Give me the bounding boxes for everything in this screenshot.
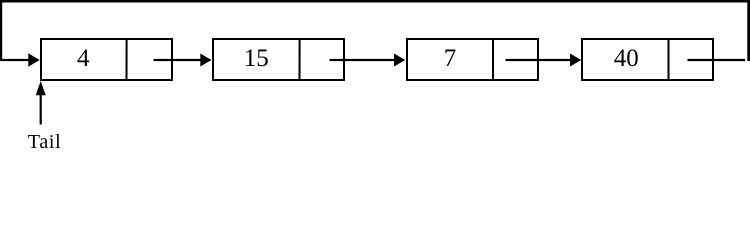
node 4 divider <box>668 38 670 81</box>
wire: left loop vertical <box>0 0 2 61</box>
svg-text:4: 4 <box>77 45 90 72</box>
wire: arrow node 1 to node 2 <box>154 54 212 67</box>
wire: top loop horizontal <box>0 0 750 3</box>
node 2 divider <box>299 38 301 81</box>
node 3 divider <box>492 38 494 81</box>
wire: arrow node 3 to node 4 <box>506 54 582 67</box>
node 4 box <box>582 39 713 80</box>
wire: left horizontal into node 1 with arrowhead <box>0 53 40 66</box>
node 1 divider <box>126 38 128 81</box>
wire: arrow node 2 to node 3 <box>330 54 406 67</box>
wire: node 4 pointer out to right loop <box>688 59 746 61</box>
svg-text:40: 40 <box>614 45 639 72</box>
node 1 box <box>41 39 172 80</box>
node 3 box <box>407 39 538 80</box>
svg-text:7: 7 <box>444 45 457 72</box>
Tail pointer arrow <box>36 81 46 125</box>
wire: right loop vertical <box>747 0 750 61</box>
svg-text:Tail: Tail <box>28 131 62 150</box>
node 2 box <box>213 39 344 80</box>
svg-text:15: 15 <box>244 45 269 72</box>
